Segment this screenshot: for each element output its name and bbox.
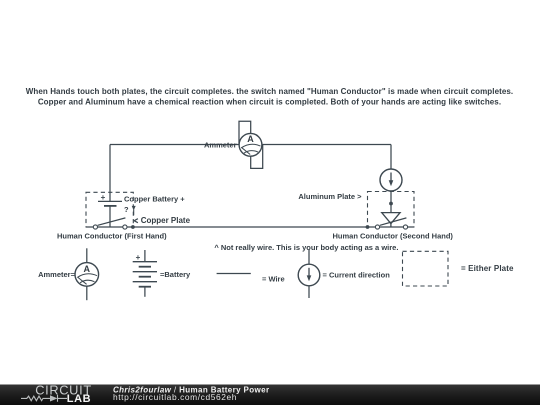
svg-text:?: ? [124, 205, 129, 214]
svg-text:= Wire: = Wire [262, 274, 285, 283]
svg-text:Copper Plate: Copper Plate [141, 216, 191, 225]
svg-text:http://circuitlab.com/cd562eh: http://circuitlab.com/cd562eh [113, 392, 237, 402]
svg-text:= Either Plate: = Either Plate [461, 264, 514, 273]
svg-text:+: + [101, 193, 106, 202]
logo resistor zigzag [21, 396, 50, 401]
wire left vertical [109, 145, 111, 202]
dashed box copper plate [86, 192, 133, 227]
triangle stub [390, 224, 392, 227]
switch SW1 right contact [123, 225, 127, 229]
legend ammeter top lead [86, 248, 88, 262]
legend current source symbol [298, 264, 320, 286]
legend battery bottom lead [144, 287, 146, 297]
svg-text:Human Conductor (First Hand): Human Conductor (First Hand) [57, 232, 167, 241]
svg-text:^ Not really wire. This is you: ^ Not really wire. This is your body act… [214, 243, 398, 252]
legend ammeter bottom lead [86, 286, 88, 300]
svg-text:Ammeter=: Ammeter= [38, 270, 76, 279]
footer bar [0, 385, 540, 405]
wire right vertical [390, 145, 392, 170]
switch SW2 right contact [403, 225, 407, 229]
wire top horizontal [110, 144, 391, 146]
svg-text:Human Conductor (Second Hand): Human Conductor (Second Hand) [333, 232, 454, 241]
ammeter AM1 lead loop top [239, 121, 251, 144]
svg-text:Aluminum Plate >: Aluminum Plate > [298, 192, 362, 201]
switch SW1 left contact [93, 225, 97, 229]
ammeter AM1 [239, 133, 262, 156]
ammeter AM1 lead loop bottom [251, 145, 263, 169]
battery V1 bottom lead [109, 206, 111, 227]
svg-text:Copper and Aluminum have a che: Copper and Aluminum have a chemical reac… [38, 98, 501, 107]
svg-text:When Hands touch both plates,: When Hands touch both plates, the circui… [26, 87, 513, 96]
legend battery plates [133, 262, 157, 287]
switch SW2 lever [380, 218, 407, 225]
wire right vertical lower [390, 191, 392, 213]
battery V1 short plate [104, 205, 117, 207]
svg-text:Ammeter: Ammeter [204, 141, 237, 150]
triangle plate contact [382, 213, 400, 224]
svg-text:=Battery: =Battery [160, 270, 191, 279]
junction dot right plate [366, 225, 370, 229]
svg-text:+: + [136, 253, 141, 262]
battery V1 long plate [98, 200, 122, 202]
dashed box aluminum plate [368, 192, 415, 228]
logo diode bar [58, 395, 68, 402]
legend current source top lead [308, 249, 310, 264]
junction dot left plate [131, 225, 135, 229]
current source I1 [380, 169, 402, 191]
svg-text:LAB: LAB [67, 393, 91, 405]
junction dot aluminum top [389, 202, 393, 206]
legend wire sample [217, 273, 251, 275]
svg-text:A: A [247, 134, 254, 144]
legend current source bottom lead [308, 286, 310, 298]
switch SW2 left contact [375, 225, 379, 229]
label arrow < Copper Plate [134, 219, 138, 223]
legend dashed plate box [403, 251, 449, 286]
logo diode [50, 395, 58, 401]
legend ammeter symbol [75, 263, 99, 287]
switch SW1 lever [98, 218, 126, 225]
legend battery top lead [144, 250, 146, 262]
svg-text:= Current direction: = Current direction [323, 271, 391, 280]
wire bottom horizontal [86, 226, 414, 228]
svg-text:A: A [84, 264, 91, 274]
current arrow annotation [132, 206, 136, 215]
